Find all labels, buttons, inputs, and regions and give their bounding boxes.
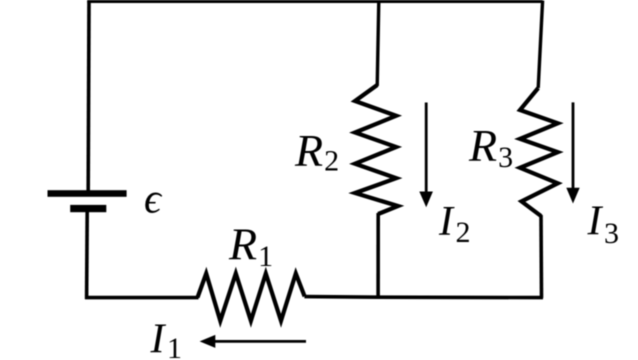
svg-text:I1: I1 bbox=[150, 317, 183, 360]
svg-text:I3: I3 bbox=[587, 199, 620, 250]
resistor R3 zigzag bbox=[520, 88, 558, 216]
resistor R1 zigzag bbox=[198, 274, 305, 321]
svg-text:R3: R3 bbox=[468, 120, 513, 174]
svg-text:I2: I2 bbox=[438, 199, 471, 249]
wire: R2 branch top lead bbox=[377, 1, 379, 87]
svg-text:R2: R2 bbox=[294, 125, 339, 178]
battery EMF source: long plate bbox=[48, 190, 127, 197]
wire: left vertical upper (battery top lead) bbox=[86, 1, 90, 191]
svg-text:R1: R1 bbox=[228, 219, 273, 273]
wire: left vertical lower (battery bottom lead) bbox=[85, 212, 89, 300]
wire: R3 branch bottom lead bbox=[539, 215, 543, 298]
resistor R2 zigzag bbox=[355, 85, 398, 214]
current arrow I1 (points left) bbox=[212, 340, 306, 343]
current arrow I3 (points down) bbox=[572, 102, 575, 191]
wire: top horizontal bbox=[87, 0, 542, 3]
current arrow I2 (points down) bbox=[425, 103, 428, 196]
wire: bottom horizontal left segment bbox=[85, 296, 199, 300]
wire: bottom horizontal right segment bbox=[304, 297, 543, 298]
wire: R3 branch top lead bbox=[538, 1, 542, 89]
battery EMF source: short plate bbox=[70, 205, 106, 212]
wire: R2 branch bottom lead bbox=[376, 213, 380, 298]
svg-text:ϵ: ϵ bbox=[144, 177, 163, 223]
